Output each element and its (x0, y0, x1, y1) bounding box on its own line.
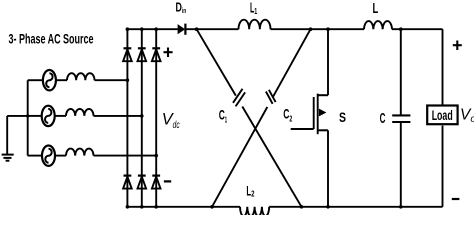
AC source phase A (43, 70, 56, 90)
junction: node TL of Z-network (195, 27, 199, 31)
wire: C branch upper (400, 29, 402, 115)
inductor phase C (66, 149, 94, 156)
wire: rectifier leg 1 (126, 29, 128, 207)
capacitor C2 (266, 90, 276, 104)
wire: bottom rail rectifier to L2 (127, 206, 240, 208)
capacitor C (392, 115, 410, 122)
diode D5 (top leg3) (152, 48, 161, 61)
svg-text:3- Phase AC Source: 3- Phase AC Source (9, 30, 94, 46)
junction: leg3 top (154, 27, 158, 31)
label: - (rectifier negative) (164, 180, 171, 182)
wire: right branch bottom (442, 126, 444, 207)
transistor S channel bar (317, 94, 319, 135)
junction: MOSFET source at bottom rail (326, 205, 330, 209)
wire: phase B to rectifier leg 2 (94, 115, 142, 117)
transistor S (MOSFET) gate lead (291, 128, 314, 130)
wire: top rail L1 to L (271, 28, 365, 30)
junction: leg3 bottom (154, 205, 158, 209)
junction: phase C / leg3 (154, 154, 158, 158)
label: + (output positive) (453, 41, 462, 51)
wire: MOSFET source to bottom rail (327, 130, 329, 207)
wire: right branch top (442, 29, 444, 104)
load resistor box (427, 106, 457, 125)
wire: phase A from bus to source (28, 79, 43, 81)
junction: MOSFET drain at top rail (326, 27, 330, 31)
transistor S drain tap (318, 94, 328, 96)
wire: bottom rail L2 to right corner (269, 206, 442, 208)
wire: phase A source to inductor (56, 79, 67, 81)
wire: phase A to rectifier leg 1 (95, 79, 128, 81)
junction: C branch top (399, 27, 403, 31)
wire: top rail L to right corner (392, 28, 443, 30)
transistor S gate bar (313, 97, 315, 129)
inductor L2 (240, 207, 269, 216)
junction: C branch bottom (399, 205, 403, 209)
diode D4 (bottom leg1) (123, 176, 132, 189)
wire: diagonal TR to BL lower segment (212, 107, 267, 207)
wire: diagonal TL to BR upper segment (197, 29, 236, 95)
svg-text:L: L (373, 1, 379, 17)
junction: bus / ground / phase B (26, 114, 29, 117)
inductor L1 (239, 20, 271, 30)
junction: phase B / leg2 (140, 114, 144, 118)
diode D1 (top leg1) (123, 48, 132, 61)
wire: phase B source to inductor (55, 115, 66, 117)
wire: neutral bus vertical (27, 80, 29, 155)
junction: leg2 top (140, 27, 144, 31)
wire: rectifier leg 2 (141, 29, 143, 207)
junction: leg1 bottom (126, 205, 130, 209)
AC source phase B (42, 106, 55, 126)
diode Din (178, 24, 186, 35)
diode D6 (bottom leg2) (138, 176, 147, 189)
wire: top rail rectifier to Din (127, 28, 177, 30)
wire: ground horizontal from neutral bus (7, 115, 28, 117)
svg-text:Load: Load (432, 107, 453, 123)
ground (2, 155, 14, 161)
junction: leg1 top (126, 27, 130, 31)
label: - (output negative) (452, 198, 460, 200)
wire: phase C from bus to source (28, 155, 42, 157)
inductor L (364, 21, 392, 29)
svg-text:C: C (380, 111, 386, 127)
wire: C branch lower (400, 122, 402, 207)
wire: phase B from bus to source (28, 115, 42, 117)
transistor S body arrow (319, 109, 327, 117)
wire: phase C to rectifier leg 3 (94, 155, 157, 157)
wire: diagonal TL to BR lower segment (242, 107, 301, 207)
junction: node BR of Z-network (300, 205, 304, 209)
svg-text:S: S (339, 109, 346, 125)
inductor phase B (66, 109, 94, 116)
wire: phase C source to inductor (55, 155, 66, 157)
inductor phase A (67, 73, 95, 80)
transistor S source tap (318, 129, 328, 131)
junction: node TR of Z-network (309, 27, 313, 31)
junction: phase A / leg1 (126, 78, 130, 82)
diode D3 (top leg2) (138, 48, 147, 61)
wire: diagonal TR to BL upper segment (273, 29, 310, 96)
wire: rectifier leg 3 (155, 29, 157, 207)
wire: top rail Din to L1 (185, 28, 238, 30)
wire: MOSFET drain to top rail (327, 29, 329, 95)
capacitor C1 (233, 89, 245, 107)
AC source phase C (42, 146, 55, 166)
wire: ground vertical lead (6, 116, 8, 154)
junction: node BL of Z-network (210, 205, 214, 209)
label: + (rectifier positive) (164, 48, 173, 58)
diode D2 (bottom leg3) (152, 176, 161, 189)
junction: leg2 bottom (140, 205, 144, 209)
